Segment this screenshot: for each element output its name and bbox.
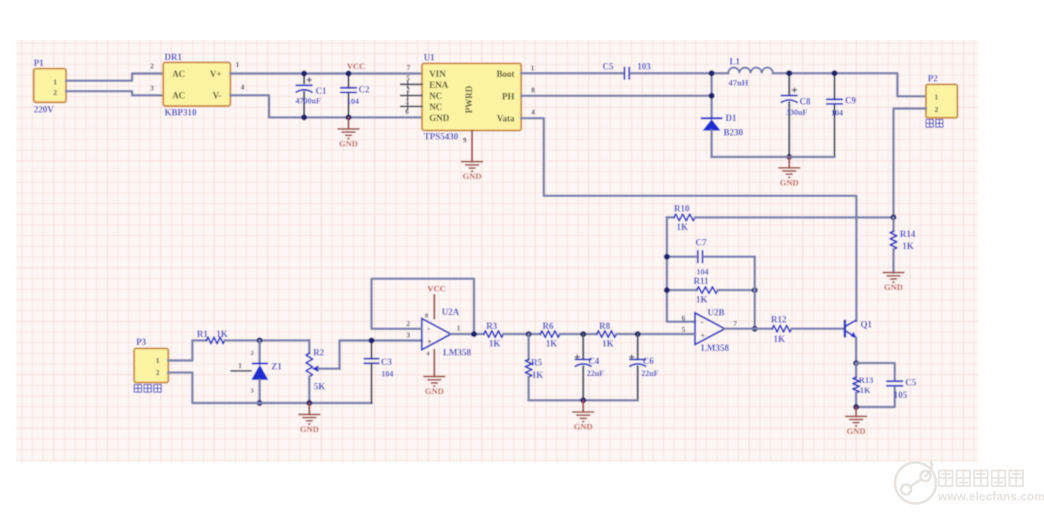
label danpianji MCU in chinese [134, 385, 141, 393]
svg-text:R3: R3 [486, 321, 497, 331]
svg-text:5: 5 [406, 74, 410, 83]
svg-text:KBP310: KBP310 [165, 108, 198, 118]
svg-text:8: 8 [531, 86, 535, 95]
ground symbol below filter rail [582, 400, 584, 412]
junction node C7 left [664, 254, 670, 260]
svg-text:www.elecfans.com: www.elecfans.com [937, 490, 1044, 504]
wire L1 to output corner into P2 pin1 [773, 73, 926, 96]
svg-text:AC: AC [172, 69, 185, 79]
junction node C2 bottom [346, 114, 352, 120]
wire right feedback bus to U2B output [754, 257, 756, 329]
svg-text:P1: P1 [34, 58, 44, 68]
svg-text:1K: 1K [216, 329, 228, 339]
pin 2 NC stub [401, 95, 422, 97]
resistor R8 1K [597, 331, 617, 338]
ground symbol below R2 [308, 403, 310, 414]
watermark elecfans logo [895, 461, 936, 504]
wire P1 pin2 to DR1 pin3 [66, 91, 163, 95]
svg-text:2: 2 [251, 350, 254, 357]
svg-text:1: 1 [156, 356, 160, 365]
junction node R10 R14 P2pin2 [891, 214, 897, 220]
junction node C9 top [832, 70, 838, 76]
junction node R2 bottom [306, 400, 312, 406]
svg-text:Z1: Z1 [271, 362, 282, 372]
svg-text:C9: C9 [845, 96, 856, 106]
wire R1 to R2 top [225, 339, 310, 341]
capacitor C5 103 bootstrap [623, 67, 625, 80]
junction node feedback to output [752, 326, 758, 332]
wire U2A output [451, 333, 484, 335]
ground symbol of output stage [788, 157, 790, 168]
svg-text:GND: GND [847, 426, 866, 436]
svg-text:9: 9 [463, 137, 467, 145]
capacitor C2 104 [348, 74, 350, 88]
svg-text:7: 7 [407, 63, 411, 72]
svg-text:GND: GND [574, 422, 593, 432]
svg-text:+: + [427, 338, 432, 347]
zener reference Z1 [258, 340, 260, 363]
junction node Z1 top [257, 337, 263, 343]
svg-text:AC: AC [172, 91, 185, 101]
svg-text:4: 4 [241, 83, 245, 92]
svg-text:22uF: 22uF [587, 369, 604, 378]
svg-text:330uF: 330uF [786, 108, 807, 117]
svg-text:1K: 1K [489, 339, 501, 349]
wire P2 pin2 to feedback divider [894, 109, 926, 218]
feedback wire U2A output to pin2 [372, 279, 475, 334]
resistor R11 1K feedback [667, 289, 697, 291]
capacitor C9 104 output [834, 73, 836, 99]
svg-text:U2B: U2B [708, 308, 725, 318]
connector P3 MCU [134, 348, 168, 382]
wire DR1 V+ to U1 VIN [230, 72, 422, 74]
watermark chinese title [939, 471, 953, 487]
capacitor C1 4700uF [303, 74, 305, 84]
svg-text:GND: GND [884, 282, 903, 292]
svg-text:L1: L1 [730, 57, 741, 67]
svg-text:B230: B230 [724, 128, 744, 138]
svg-text:V+: V+ [210, 69, 222, 79]
svg-text:-: - [427, 324, 430, 334]
svg-text:NC: NC [429, 102, 442, 112]
svg-text:6: 6 [682, 314, 686, 323]
op-amp U2B LM358 [695, 313, 725, 345]
svg-text:1: 1 [531, 64, 535, 73]
wire C5 to PH node [631, 72, 729, 74]
svg-text:NC: NC [429, 91, 442, 101]
svg-text:47uH: 47uH [729, 78, 749, 88]
svg-text:1K: 1K [774, 334, 786, 344]
svg-text:1K: 1K [902, 241, 914, 251]
junction node R5 top [526, 331, 532, 337]
svg-text:VCC: VCC [347, 61, 365, 71]
svg-text:GND: GND [300, 424, 319, 434]
resistor R14 1K to ground [892, 217, 894, 231]
svg-text:1K: 1K [677, 222, 689, 232]
R2 wiper arrow [312, 365, 319, 372]
svg-text:VIN: VIN [429, 69, 446, 79]
svg-text:2: 2 [150, 62, 154, 71]
svg-text:C2: C2 [359, 85, 370, 95]
svg-text:PWRD: PWRD [464, 85, 474, 113]
junction node C8 top [786, 70, 792, 76]
junction node Z1 bottom [257, 400, 263, 406]
ground symbol below R14 [883, 272, 905, 274]
ground symbol below U2A [433, 350, 435, 377]
svg-text:V-: V- [213, 91, 222, 101]
resistor R12 1K [772, 325, 791, 332]
svg-text:1: 1 [53, 77, 57, 86]
junction node C8 bottom [786, 154, 792, 160]
svg-text:TPS5430: TPS5430 [424, 132, 459, 142]
resistor R1 1K [207, 337, 225, 344]
wire P3 pin2 to bottom rail [168, 373, 371, 403]
svg-text:GND: GND [425, 386, 444, 396]
junction node R11 right [752, 287, 758, 293]
transistor Q1 NPN [844, 320, 847, 338]
svg-text:1K: 1K [860, 385, 871, 395]
ground symbol below R13 [855, 407, 857, 416]
svg-text:C1: C1 [316, 86, 327, 96]
svg-text:2: 2 [156, 368, 160, 377]
svg-text:4: 4 [531, 108, 535, 117]
svg-text:R1: R1 [197, 329, 208, 339]
junction node C2 top VCC [346, 71, 352, 77]
svg-text:104: 104 [347, 97, 359, 106]
U1 thermal pad pin 9 to ground [471, 131, 473, 162]
capacitor C7 104 feedback [667, 256, 696, 258]
svg-text:R10: R10 [674, 204, 690, 214]
svg-text:5: 5 [682, 325, 686, 334]
svg-text:6: 6 [405, 107, 409, 116]
resistor R3 1K [484, 331, 504, 338]
regulator U1 TPS5430 [422, 63, 521, 130]
svg-text:VCC: VCC [427, 284, 445, 294]
svg-text:1: 1 [236, 60, 240, 69]
junction node rail C4 [580, 397, 586, 403]
svg-text:GND: GND [463, 171, 482, 181]
wire Q1 emitter down [855, 338, 857, 363]
svg-text:P2: P2 [928, 74, 938, 84]
svg-text:2: 2 [406, 85, 410, 94]
svg-text:2: 2 [406, 319, 410, 328]
wire R12 to Q1 base [792, 328, 844, 330]
svg-text:1K: 1K [546, 339, 558, 349]
svg-text:2: 2 [53, 88, 57, 97]
svg-text:3: 3 [405, 97, 409, 106]
svg-text:1: 1 [935, 93, 939, 102]
potentiometer R2 5K [308, 340, 310, 353]
svg-text:4700uF: 4700uF [296, 97, 321, 106]
svg-text:C4: C4 [588, 356, 599, 366]
svg-text:GND: GND [429, 113, 450, 123]
svg-text:LM358: LM358 [701, 343, 729, 353]
svg-text:Boot: Boot [497, 69, 515, 79]
wire P3 pin1 up to R1 [168, 340, 206, 360]
svg-text:1K: 1K [602, 339, 614, 349]
svg-text:ENA: ENA [429, 80, 449, 90]
svg-text:1K: 1K [532, 370, 544, 380]
svg-text:R8: R8 [599, 321, 610, 331]
capacitor C3 104 input filter [371, 341, 373, 359]
svg-text:R5: R5 [531, 358, 542, 368]
svg-text:C3: C3 [381, 357, 392, 367]
svg-text:C8: C8 [800, 97, 811, 107]
junction node C6 top [635, 331, 641, 337]
junction node U2A output [471, 331, 477, 337]
svg-text:GND: GND [780, 177, 799, 187]
svg-text:1K: 1K [696, 295, 708, 305]
wire DR1 V- down to ground rail into U1 GND [230, 95, 422, 117]
capacitor C6 22uF [637, 334, 639, 359]
capacitor C8 330uF output [788, 73, 790, 95]
svg-text:R13: R13 [859, 375, 874, 385]
svg-text:R12: R12 [771, 315, 787, 325]
wire R6 to R8 [560, 333, 597, 335]
svg-text:+: + [701, 332, 706, 341]
junction node emitter network bottom [853, 404, 859, 410]
ground symbol below C2 [348, 117, 350, 128]
svg-text:DR1: DR1 [165, 52, 183, 62]
wire U2B output to R12 [725, 328, 772, 330]
connector P2 load [926, 84, 958, 117]
resistor R13 1K [855, 363, 857, 377]
resistor R6 1K [540, 331, 560, 338]
wire R2 wiper to U2A pin3 [340, 341, 422, 369]
svg-text:1: 1 [457, 324, 461, 333]
svg-text:U2A: U2A [442, 307, 460, 317]
connector P1 220V [34, 69, 66, 103]
svg-text:5K: 5K [314, 382, 326, 392]
svg-text:104: 104 [831, 109, 843, 118]
svg-text:P3: P3 [136, 337, 146, 347]
junction node R11 left [664, 287, 670, 293]
label fuzai load in chinese [926, 120, 933, 128]
svg-text:103: 103 [637, 62, 651, 72]
svg-text:C5: C5 [603, 62, 614, 72]
schottky diode D1 B230 [701, 117, 723, 119]
svg-text:Vata: Vata [497, 114, 515, 124]
svg-text:3: 3 [406, 331, 410, 340]
wire R8 to U2B pin5 [616, 333, 695, 335]
wire D1 anode to output ground rail [710, 130, 712, 157]
svg-text:C6: C6 [643, 356, 654, 366]
junction node C1 top [301, 71, 307, 77]
svg-text:7: 7 [733, 319, 737, 328]
junction node C1 bottom [301, 114, 307, 120]
svg-text:R14: R14 [900, 229, 916, 239]
junction node C3 top [369, 338, 375, 344]
svg-text:104: 104 [381, 370, 393, 379]
svg-text:3: 3 [150, 84, 154, 93]
output ground rail wire [712, 156, 835, 158]
wire left feedback bus to U2B pin6 [667, 217, 695, 321]
wire P1 pin1 to DR1 pin2 [66, 74, 163, 81]
resistor R5 1K to rail [527, 334, 529, 359]
svg-text:R6: R6 [543, 321, 554, 331]
capacitor C4 22uF [582, 334, 584, 359]
Z1 reference pin 1 stub [231, 370, 251, 372]
op-amp U2A LM358 [422, 319, 451, 350]
junction node PH riser [710, 73, 712, 118]
bridge rectifier DR1 KBP310 [163, 62, 230, 106]
junction node emitter network top [853, 360, 859, 366]
filter ground rail [529, 399, 638, 401]
junction node C4 top [580, 331, 586, 337]
svg-text:LM358: LM358 [443, 348, 471, 358]
svg-text:R2: R2 [313, 348, 324, 358]
svg-text:D1: D1 [726, 113, 737, 123]
svg-text:2: 2 [935, 105, 939, 114]
svg-text:GND: GND [339, 138, 358, 148]
svg-text:220V: 220V [34, 105, 55, 115]
svg-text:C7: C7 [696, 238, 707, 248]
pin 5 ENA stub with no-connect [401, 83, 422, 85]
capacitor C5 105 across R13 [856, 363, 895, 379]
svg-text:Q1: Q1 [861, 320, 873, 330]
svg-text:U1: U1 [424, 53, 435, 63]
svg-text:PH: PH [502, 92, 515, 102]
svg-text:22uF: 22uF [641, 369, 658, 378]
pin 3 NC stub [401, 105, 422, 107]
svg-text:-: - [701, 317, 704, 327]
svg-text:105: 105 [894, 390, 908, 400]
ground symbol below U1 [461, 161, 483, 163]
svg-text:C5: C5 [905, 378, 916, 388]
wire R3 to R6 [503, 333, 540, 335]
svg-text:1: 1 [238, 361, 242, 370]
power net VCC above U2A [433, 295, 435, 318]
svg-text:R11: R11 [694, 276, 710, 286]
